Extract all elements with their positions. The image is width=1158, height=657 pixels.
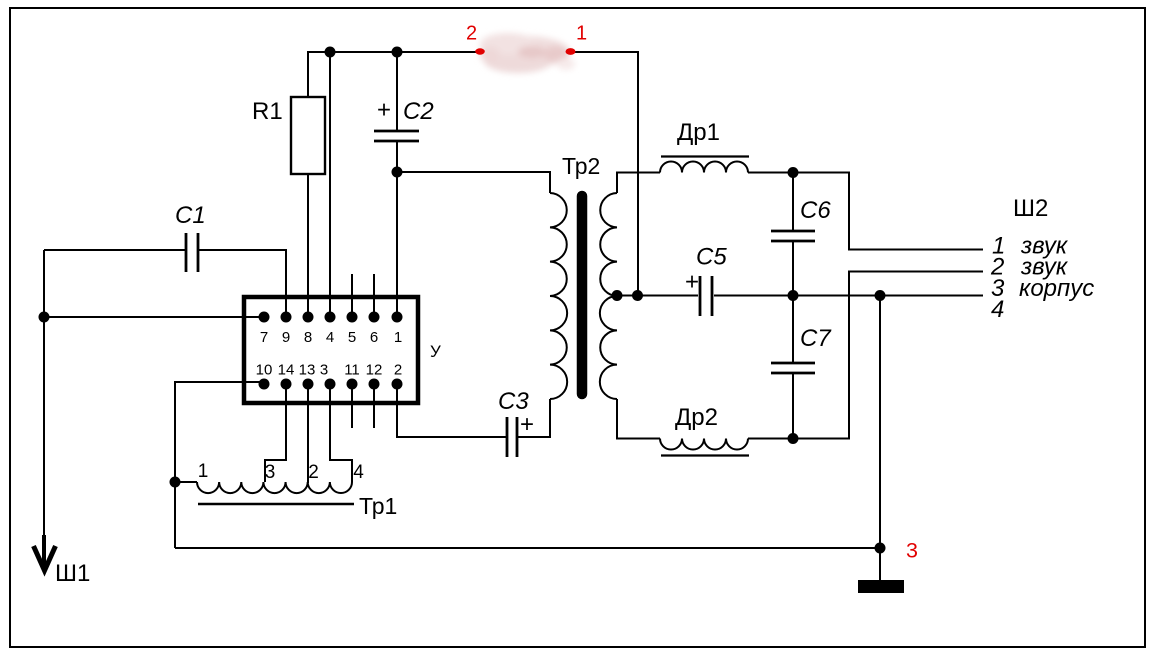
svg-text:3: 3 [906, 539, 918, 563]
wire Tp2 secondary top to Dr1 [617, 173, 660, 194]
svg-text:Др1: Др1 [677, 119, 720, 146]
op-amp U1 IC box [244, 297, 418, 403]
svg-text:C7: C7 [800, 325, 832, 352]
wire C2 bottom lead to pin 1 [396, 141, 398, 317]
svg-text:1: 1 [394, 329, 402, 346]
red smudge blob [480, 33, 575, 73]
transformer Tp2 primary winding [550, 193, 567, 399]
wire ground branch vertical [879, 296, 881, 581]
svg-text:+: + [377, 97, 391, 124]
transformer Tp1 core line [198, 503, 354, 505]
transformer Tp2 secondary winding [600, 193, 617, 399]
svg-text:10: 10 [256, 362, 273, 379]
svg-text:5: 5 [348, 329, 356, 346]
wire pin 10 horizontal [175, 382, 264, 548]
wire Tp2 secondary bottom to Dr2 [617, 399, 660, 439]
svg-text:1: 1 [576, 23, 587, 45]
ground [858, 580, 904, 593]
wire pin 11 stub [351, 384, 353, 428]
svg-text:C5: C5 [696, 244, 727, 271]
svg-text:12: 12 [366, 362, 383, 379]
capacitor C6 plates [771, 231, 815, 241]
red node 2 terminal [475, 48, 485, 54]
wire C1 right to pin 9 [198, 250, 286, 317]
svg-text:C2: C2 [403, 98, 434, 125]
capacitor C2 plates [374, 131, 419, 141]
wire bottom node to Sh2 pin 2 [793, 272, 983, 439]
svg-text:6: 6 [370, 329, 378, 346]
wire C7 top lead [792, 296, 794, 364]
capacitor C5 plates [700, 276, 712, 316]
wire C1 left [44, 249, 186, 251]
wire R1 top lead [307, 52, 309, 97]
wire pin 5 stub [351, 274, 353, 317]
svg-text:Тр1: Тр1 [359, 493, 397, 519]
wire C2 junction to Tp2 primary top [397, 172, 550, 193]
wire pin 14 to Tp1 tap 3 [265, 384, 286, 482]
wire Tp2 primary bottom to C3 [518, 399, 550, 437]
resistor R1 [291, 97, 325, 174]
svg-text:4: 4 [991, 296, 1004, 323]
svg-text:3: 3 [265, 462, 276, 483]
svg-text:Тр2: Тр2 [562, 153, 600, 179]
wire top bus left segment [307, 51, 478, 53]
wire R1 bottom lead to pin 8 [307, 174, 309, 317]
wire C6 top lead [792, 173, 794, 232]
Tp1 tap numbers [198, 461, 365, 483]
connector Sh1 arrow [34, 535, 56, 571]
svg-text:11: 11 [344, 362, 360, 379]
svg-text:7: 7 [260, 329, 268, 346]
wire C6 node to Sh2 pin 1 [793, 173, 983, 250]
wire pin 13 to Tp1 tap 2 [307, 384, 309, 483]
transformer Tp2 core [577, 196, 588, 394]
wire pin 7 horizontal [44, 316, 264, 318]
svg-text:8: 8 [304, 329, 312, 346]
svg-text:4: 4 [353, 462, 364, 483]
svg-text:2: 2 [308, 462, 319, 483]
wire pin 6 stub [373, 274, 375, 317]
svg-text:+: + [685, 269, 699, 296]
wire left bus vertical [43, 250, 45, 540]
wire Dr2 to bottom node [748, 438, 793, 440]
transformer Tp1 winding [197, 482, 352, 493]
svg-text:9: 9 [282, 329, 290, 346]
svg-text:R1: R1 [252, 98, 283, 125]
wire top bus right segment [573, 52, 638, 296]
wire C6 bottom lead [792, 241, 794, 296]
capacitor C7 plates [771, 363, 815, 373]
wire Tp1 pin1 stub [175, 481, 197, 483]
IC pin dots top row [259, 312, 403, 323]
inductor Dr1 winding [660, 162, 748, 173]
svg-text:14: 14 [278, 362, 295, 379]
IC top pin numbers [260, 329, 402, 346]
capacitor C1 plates [186, 233, 198, 272]
svg-text:Др2: Др2 [675, 404, 718, 431]
svg-text:2: 2 [394, 362, 402, 379]
svg-text:+: + [520, 411, 534, 438]
inductor Dr2 winding [660, 439, 748, 450]
wire pin 4 vertical [329, 52, 331, 317]
svg-text:2: 2 [466, 23, 477, 45]
Sh2 pin rows [990, 233, 1094, 324]
svg-text:Ш2: Ш2 [1013, 195, 1048, 222]
wire Dr1 to C6 node [748, 172, 793, 174]
wire pin 2 to C3 [397, 384, 506, 437]
wire C7 bottom lead [792, 373, 794, 439]
wire center tap to C5 [617, 295, 698, 297]
wire C5 to Sh2 pin 3 [714, 295, 983, 297]
inductor Dr2 core line [661, 454, 749, 456]
svg-text:корпус: корпус [1019, 275, 1094, 302]
inductor Dr1 core line [661, 155, 749, 157]
svg-text:1: 1 [198, 461, 209, 482]
wire pin 3 to Tp1 tap 4 [330, 384, 352, 482]
svg-text:C6: C6 [800, 197, 831, 224]
IC bottom pin numbers [256, 362, 403, 379]
svg-text:4: 4 [326, 329, 334, 346]
svg-text:C1: C1 [175, 202, 206, 229]
wire pin 12 stub [373, 384, 375, 428]
IC pin dots bottom row [259, 379, 403, 390]
wire bottom bus [175, 547, 880, 549]
svg-text:13: 13 [299, 362, 316, 379]
svg-text:3: 3 [320, 362, 328, 379]
capacitor C3 plates [507, 417, 517, 457]
wire C2 top lead [396, 52, 398, 131]
svg-text:Ш1: Ш1 [55, 560, 90, 587]
svg-text:У: У [430, 342, 441, 361]
red node 1 terminal [566, 48, 576, 55]
